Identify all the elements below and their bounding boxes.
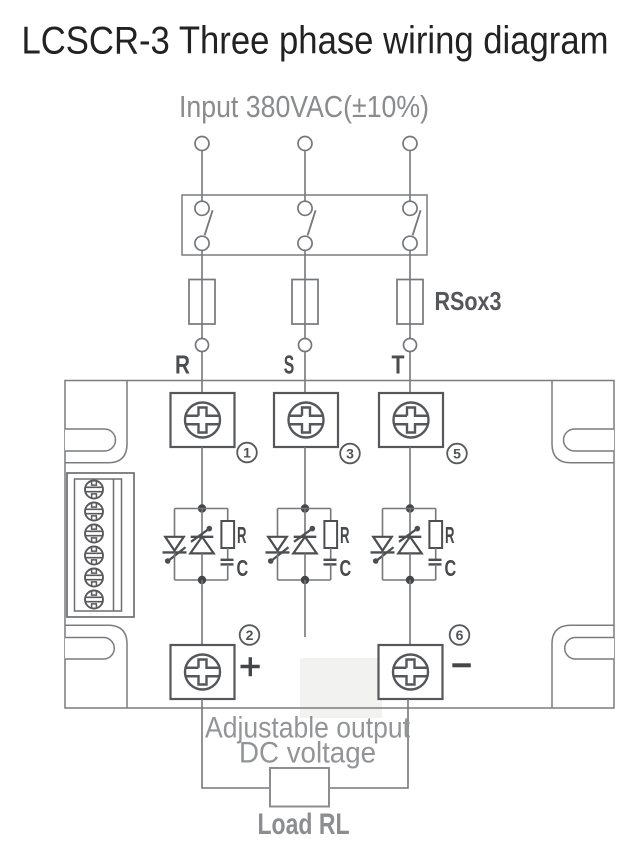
control connector J1 body [67, 473, 134, 617]
thyristor SCR3b [398, 526, 421, 554]
wire node T to terminal 5 [409, 352, 411, 394]
junction dot top 2 [301, 504, 309, 512]
snubber capacitor C cell 1 [221, 560, 234, 565]
wire resistor to capacitor cell 1 [227, 548, 229, 560]
switch pole 3 [403, 201, 421, 250]
input terminal node L3 [403, 137, 417, 151]
wire switch pole 2 to node S [304, 250, 306, 339]
right rail upper segment cell 3 [435, 509, 437, 522]
terminal 3 [274, 393, 338, 447]
svg-text:R: R [340, 522, 350, 548]
node S [299, 339, 312, 352]
right rail upper segment cell 1 [227, 509, 229, 522]
svg-text:3: 3 [346, 446, 354, 462]
node T [404, 339, 417, 352]
svg-text:LCSCR-3 Three phase wiring dia: LCSCR-3 Three phase wiring diagram [22, 20, 609, 63]
wire capacitor to bottom rail cell 2 [330, 564, 332, 580]
snubber resistor R cell 1 [221, 521, 234, 548]
thyristor SCR3a [371, 537, 395, 564]
node R [196, 339, 209, 352]
terminal label ⑤ (5) [447, 444, 467, 464]
label Adjustable output DC voltage [205, 712, 410, 770]
polarity mark + [241, 657, 260, 676]
left rail lower segment cell 1 [174, 552, 176, 580]
mounting slot top-left [65, 429, 116, 451]
connector J1 screw 5 [85, 569, 103, 587]
wire cell 3 to terminal 6 [409, 580, 411, 645]
svg-text:DC voltage: DC voltage [239, 737, 376, 770]
connector J1 screw 1 [85, 481, 103, 499]
wire cell 2 stub [304, 580, 306, 637]
right rail upper segment cell 2 [330, 509, 332, 522]
junction dot top 3 [406, 504, 414, 512]
wire center lower segment cell 3 [409, 553, 411, 580]
svg-text:5: 5 [453, 446, 461, 462]
input terminal node L1 [195, 137, 209, 151]
fuse F1 [189, 280, 215, 325]
flange profile top-right [552, 381, 614, 463]
svg-text:S: S [284, 350, 295, 380]
junction dot top 1 [198, 504, 206, 512]
junction dot bottom 1 [198, 576, 206, 584]
terminal label ③ (3) [340, 444, 360, 464]
connector J1 screw 6 [85, 591, 103, 609]
left rail lower segment cell 3 [382, 552, 384, 580]
wire capacitor to bottom rail cell 3 [435, 564, 437, 580]
terminal label ① (1) [237, 443, 257, 463]
svg-text:R: R [175, 350, 190, 380]
bottom rail of SCR cell 3 [383, 579, 436, 581]
wire terminal 6 to load (-) [329, 699, 408, 788]
svg-text:C: C [445, 555, 457, 581]
wire L2 input to switch [304, 151, 306, 202]
connector J1 screw 2 [85, 503, 103, 521]
svg-text:1: 1 [243, 445, 251, 461]
top rail of SCR cell 1 [175, 508, 228, 510]
flange profile top-left [65, 381, 127, 463]
svg-text:T: T [392, 350, 405, 380]
wire center upper segment cell 3 [409, 509, 411, 537]
svg-text:C: C [237, 555, 249, 581]
wire L3 input to switch [409, 151, 411, 202]
left rail lower segment cell 2 [277, 552, 279, 580]
wire resistor to capacitor cell 3 [435, 548, 437, 560]
wire center lower segment cell 1 [201, 553, 203, 580]
mounting slot top-right [564, 429, 614, 451]
input terminal node L2 [298, 137, 312, 151]
terminal 6 [379, 645, 443, 699]
wire terminal 2 to load (+) [202, 699, 270, 788]
wire node R to terminal 1 [201, 352, 203, 394]
svg-text:Load RL: Load RL [258, 808, 350, 841]
snubber resistor R cell 3 [429, 521, 442, 548]
thyristor SCR1a [163, 537, 187, 564]
svg-text:C: C [340, 555, 352, 581]
faint background patch [300, 658, 382, 718]
snubber resistor R cell 2 [324, 521, 337, 548]
flange profile bottom-right [552, 625, 614, 708]
load resistor RL [270, 768, 329, 807]
wire capacitor to bottom rail cell 1 [227, 564, 229, 580]
svg-text:6: 6 [456, 627, 464, 643]
wire center lower segment cell 2 [304, 553, 306, 580]
wire resistor to capacitor cell 2 [330, 548, 332, 560]
terminal 1 [171, 393, 235, 447]
snubber capacitor C cell 3 [429, 560, 442, 565]
switch pole 1 [195, 201, 213, 250]
fuse F3 [397, 280, 423, 325]
connector J1 screw 3 [85, 525, 103, 543]
bottom rail of SCR cell 1 [175, 579, 228, 581]
thyristor SCR1b [190, 526, 213, 554]
SSR module outline [65, 381, 614, 709]
wire terminal 1 to node top 1 [201, 447, 203, 509]
top rail of SCR cell 2 [278, 508, 331, 510]
mounting slot bottom-left [65, 638, 114, 660]
top rail of SCR cell 3 [383, 508, 436, 510]
thyristor SCR2a [266, 537, 290, 564]
mounting slot bottom-right [565, 638, 614, 660]
switch pole 2 [298, 201, 316, 250]
junction dot bottom 3 [406, 576, 414, 584]
wire terminal 3 to node top 2 [304, 447, 306, 509]
wire node S to terminal 3 [304, 352, 306, 394]
terminal 5 [379, 393, 443, 447]
wire terminal 5 to node top 3 [409, 447, 411, 509]
left rail upper segment cell 2 [277, 509, 279, 537]
wire center upper segment cell 1 [201, 509, 203, 537]
wire center upper segment cell 2 [304, 509, 306, 537]
connector J1 screw 4 [85, 547, 103, 565]
svg-text:R: R [237, 522, 247, 548]
wire switch pole 1 to node R [201, 250, 203, 339]
bottom rail of SCR cell 2 [278, 579, 331, 581]
terminal label ② (2) [240, 625, 260, 645]
junction dot bottom 2 [301, 576, 309, 584]
snubber capacitor C cell 2 [324, 560, 337, 565]
left rail upper segment cell 1 [174, 509, 176, 537]
left rail upper segment cell 3 [382, 509, 384, 537]
svg-text:R: R [445, 522, 455, 548]
polarity mark - [452, 663, 471, 667]
svg-text:RSox3: RSox3 [435, 286, 502, 316]
svg-text:2: 2 [246, 627, 254, 643]
fuse F2 [292, 280, 318, 325]
wire cell 1 to terminal 2 [201, 580, 203, 645]
terminal 2 [171, 645, 235, 699]
switch box QF [182, 195, 427, 255]
terminal label ⑥ (6) [450, 625, 470, 645]
wire switch pole 3 to node T [409, 250, 411, 339]
svg-text:Input 380VAC(±10%): Input 380VAC(±10%) [179, 89, 429, 124]
thyristor SCR2b [293, 526, 316, 554]
wire L1 input to switch [201, 151, 203, 202]
flange profile bottom-left [65, 625, 127, 708]
